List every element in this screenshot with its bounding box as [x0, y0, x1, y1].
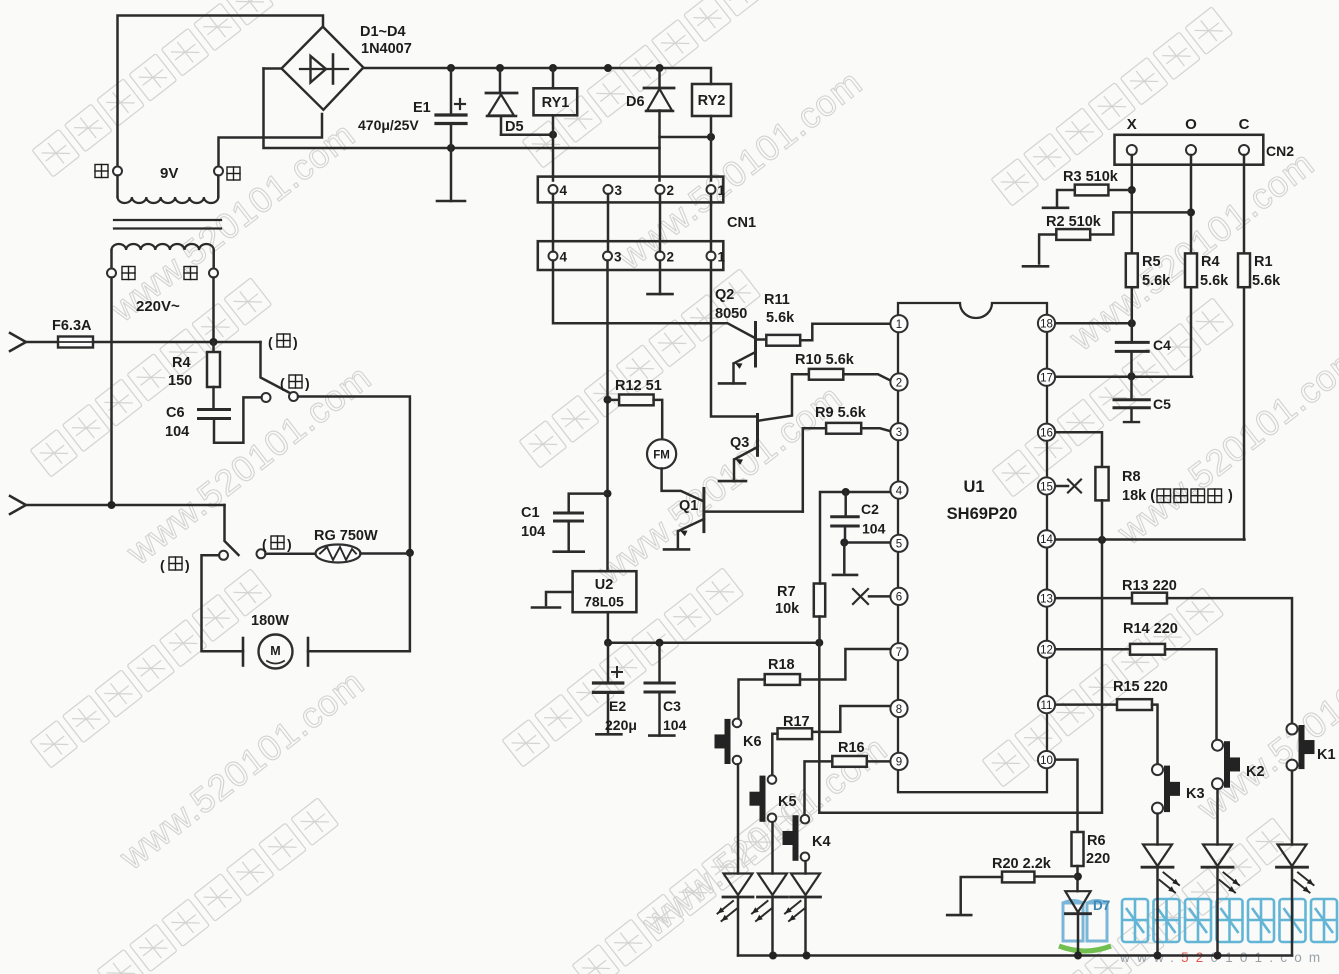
wire D5 to RY1 bottom: [501, 133, 553, 136]
resistor R4 150: [212, 342, 215, 352]
key K3: [1152, 764, 1163, 775]
key K6: [733, 719, 742, 728]
wire pin10 to R6: [1055, 760, 1078, 832]
transformer core: [114, 219, 221, 221]
resistor R4 5.6k: [1185, 253, 1197, 287]
wire pin4 to C2 and R7: [820, 492, 891, 584]
relay RY1: [552, 68, 555, 88]
resistor R13 220: [1132, 593, 1167, 604]
wire pin5 to ground: [844, 541, 890, 544]
wire CN1 pin4 to Q2 base: [553, 261, 755, 339]
resistor R14 220: [1130, 644, 1165, 655]
ground C3: [649, 734, 674, 737]
wire R11 to pin1: [800, 324, 890, 341]
U1 pin 8: [890, 700, 907, 717]
U1 pin 11: [1038, 696, 1055, 713]
U1 pin 6: [890, 588, 907, 605]
resistor R16: [832, 756, 867, 767]
capacitor E1 470u/25V: [450, 68, 453, 115]
pin6 no-connect X: [853, 589, 868, 604]
U1 pin 14: [1038, 530, 1055, 547]
resistor R18: [765, 674, 800, 685]
transformer secondary winding: [116, 176, 119, 198]
pin15 no-connect X: [1055, 485, 1068, 488]
wire R14 to K2: [1165, 649, 1217, 739]
wire R13 to K1: [1167, 598, 1292, 723]
resistor R15 220: [1117, 699, 1152, 710]
U1 pin 9: [890, 753, 907, 770]
resistor R2 510k: [1056, 229, 1090, 240]
bridge rectifier D1-D4 diamond: [282, 27, 364, 110]
wire X line CN2 to C4: [1131, 155, 1134, 342]
resistor R6 220: [1072, 832, 1084, 866]
diode inside bridge: [300, 68, 348, 70]
L input arrow: [10, 333, 26, 351]
diode D7: [1065, 891, 1090, 912]
U1 pin 15: [1038, 477, 1055, 494]
resistor R12 51: [608, 399, 620, 402]
transistor Q1: [702, 489, 705, 532]
key K4: [801, 815, 810, 824]
resistor R20 2.2k: [1034, 875, 1078, 878]
U1 pin 16: [1038, 424, 1055, 441]
wire D6 anode to RY2 bottom and CN1 pin2: [658, 111, 661, 181]
U1 pin 13: [1038, 590, 1055, 607]
capacitor C5: [1130, 376, 1133, 400]
LED below K3: [1156, 814, 1159, 845]
resistor R9 5.6k: [826, 423, 861, 434]
wires CN1 row1 to row2: [552, 194, 555, 252]
U1 pin 12: [1038, 641, 1055, 658]
U1 pin 17: [1038, 369, 1055, 386]
wire lower-left contact to motor: [202, 555, 244, 651]
wire pin13 to R13: [1055, 597, 1132, 600]
wire pin17 to C4/C5 junction and R4 bottom: [1055, 375, 1192, 378]
wire pin7 to R18: [800, 649, 891, 680]
wire CN1 pin1 to Q3 base: [711, 261, 757, 417]
heating element RG 750W: [266, 553, 316, 556]
wire R16 to K4: [805, 761, 833, 815]
capacitor C6 104: [199, 408, 230, 411]
capacitor C1 104: [569, 494, 608, 513]
capacitor C4: [1116, 341, 1148, 344]
wire pin12 to R14: [1055, 648, 1130, 651]
ground E2: [596, 733, 621, 736]
key K2: [1212, 740, 1223, 751]
wire R12 to FM: [654, 400, 663, 439]
wire Q1 collector to R9: [803, 428, 826, 511]
LED below K6: [737, 764, 740, 873]
transformer 9V secondary terminals: [113, 167, 122, 176]
wire bottom rail: [738, 954, 1292, 957]
resistor R17: [778, 728, 813, 739]
capacitor C3 104: [658, 643, 661, 683]
N input arrow: [10, 496, 26, 514]
wire R17 to K5: [772, 734, 777, 776]
U1 pin 18: [1038, 315, 1055, 332]
wire C6 to switch contact: [214, 397, 262, 442]
ground U2: [546, 592, 573, 605]
U1 pin 2: [890, 373, 907, 390]
wire pin11 to R15: [1055, 703, 1117, 706]
wire C line CN2 down: [1243, 155, 1246, 253]
IC U1 SH69P20 body: [898, 303, 1047, 792]
ground R20: [947, 914, 971, 917]
U1 pin 1: [890, 315, 907, 332]
ground C1: [554, 550, 584, 553]
LED below K5: [771, 822, 774, 873]
diode D5: [499, 68, 502, 93]
wire +9V top rail: [363, 68, 711, 84]
wire CN1 pin3 column to U2: [606, 261, 609, 572]
fan motor FM: [647, 439, 676, 468]
diode D6: [658, 68, 661, 88]
wire bridge bottom to 9V winding: [219, 114, 323, 167]
wire R18 to K6: [739, 680, 765, 719]
wire O line CN2 down: [1190, 155, 1193, 253]
resistor R8 18k: [1095, 467, 1108, 500]
fuse F6.3A: [26, 341, 261, 344]
transistor Q2 8050: [754, 323, 757, 367]
connector CN1 row1: [538, 177, 724, 203]
resistor R7 10k: [814, 584, 825, 617]
wire FM to Q1 base: [662, 469, 703, 501]
capacitor C2 104: [844, 492, 847, 517]
wire U2 output to +5V rail: [607, 612, 610, 643]
LED below K1: [1291, 771, 1294, 845]
ground R2: [1023, 265, 1048, 268]
wire pin14 to R8 bottom and C line: [1055, 538, 1245, 541]
wire pin9 to R16: [867, 760, 890, 763]
ground R3: [1043, 207, 1068, 210]
wire DC- from bridge left corner: [264, 69, 660, 149]
motor M 180W: [242, 638, 245, 666]
ground pin5: [833, 574, 857, 577]
logo book icon: [1063, 901, 1107, 942]
U1 pin 4: [890, 482, 907, 499]
ground Q2 emitter: [719, 382, 745, 385]
ground Q3 emitter: [719, 480, 746, 483]
wire gnd rail: [608, 641, 819, 644]
connector CN2: [1115, 135, 1264, 165]
U1 pin 5: [890, 535, 907, 552]
logo text jiadian weixiu ziliao wang: [1122, 899, 1337, 942]
ground for E1: [437, 200, 465, 203]
resistor R10 5.6k: [809, 369, 843, 380]
resistor R11 5.6k: [766, 335, 800, 346]
U1 pin 10: [1038, 751, 1055, 768]
wire pin18 to X line: [1055, 322, 1132, 325]
capacitor E2 220u: [607, 643, 610, 683]
wire R15 to K3: [1152, 705, 1158, 765]
regulator U2 78L05: [573, 571, 637, 612]
transformer primary terminals: [107, 269, 116, 278]
wire Vss net from gnd rail to pin14 junction: [819, 540, 1102, 813]
resistor R1 5.6k: [1238, 253, 1250, 287]
relay RY2: [692, 84, 731, 116]
wire pin16 to R8: [1055, 432, 1102, 467]
key K5: [768, 775, 777, 784]
resistor R3 510k: [1108, 189, 1131, 192]
U1 pin 3: [890, 423, 907, 440]
selector switch lower: [225, 505, 239, 555]
U1 pin 7: [890, 643, 907, 660]
LED below K2: [1216, 789, 1219, 844]
wire top loop from transformer to bridge: [118, 16, 324, 167]
ground CN1 pin2: [659, 261, 662, 295]
connector CN1 row2: [538, 241, 724, 270]
wire R9 to pin3: [861, 428, 890, 431]
wire switch to heater line (black): [298, 397, 410, 652]
wire R10 to pin2: [843, 374, 890, 380]
key K1: [1287, 724, 1298, 735]
selector switch upper arm: [261, 342, 291, 393]
wire N line: [26, 504, 225, 507]
resistor R5 5.6k: [1126, 253, 1138, 287]
LED below K4: [804, 861, 807, 873]
wire primary left down to N line: [110, 278, 113, 506]
ground Q1 emitter: [664, 548, 689, 551]
wire primary right down to L line: [212, 278, 215, 343]
transformer 220V primary winding: [110, 250, 113, 269]
transistor Q3: [756, 415, 759, 456]
wire pin8 to R17: [812, 706, 890, 732]
